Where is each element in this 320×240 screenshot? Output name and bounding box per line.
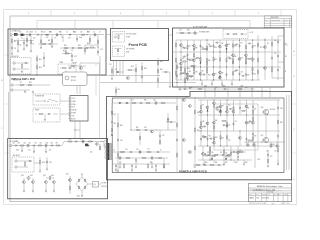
- svg-text:C82: C82: [221, 43, 224, 45]
- svg-text:R14: R14: [215, 120, 218, 122]
- svg-text:C28: C28: [228, 140, 231, 142]
- svg-text:D33: D33: [221, 72, 224, 74]
- svg-text:R62: R62: [225, 162, 228, 164]
- svg-text:R90: R90: [197, 112, 200, 114]
- svg-text:R61: R61: [201, 71, 204, 73]
- svg-text:100p: 100p: [79, 37, 82, 39]
- svg-text:C90: C90: [18, 142, 21, 144]
- svg-text:C12: C12: [74, 56, 77, 58]
- svg-text:R50: R50: [208, 135, 211, 137]
- svg-text:DWG NO: SV700-01: DWG NO: SV700-01: [249, 203, 262, 205]
- svg-text:C26: C26: [26, 31, 29, 33]
- svg-text:J12: J12: [109, 64, 112, 66]
- svg-text:C67: C67: [162, 135, 165, 137]
- svg-text:C92: C92: [40, 142, 43, 144]
- svg-text:R110: R110: [42, 162, 45, 164]
- svg-text:R61: R61: [160, 69, 163, 71]
- svg-text:D96: D96: [234, 56, 237, 58]
- svg-text:D12: D12: [131, 100, 134, 102]
- svg-text:Q70: Q70: [240, 58, 243, 60]
- svg-text:FUSE: FUSE: [35, 110, 39, 112]
- svg-text:Q30: Q30: [261, 107, 264, 109]
- svg-text:E: E: [285, 71, 286, 73]
- svg-text:C60: C60: [153, 100, 156, 102]
- svg-text:4 SCL: 4 SCL: [71, 107, 75, 109]
- svg-text:-B: -B: [160, 150, 161, 152]
- svg-text:6 STBY: 6 STBY: [71, 113, 76, 115]
- svg-text:R82: R82: [120, 125, 123, 127]
- svg-text:C6: C6: [66, 31, 68, 33]
- svg-text:D11: D11: [254, 109, 257, 111]
- svg-text:250V: 250V: [16, 149, 19, 151]
- svg-text:C77: C77: [147, 149, 150, 151]
- svg-text:C5: C5: [35, 31, 37, 33]
- svg-text:R71: R71: [260, 47, 263, 49]
- svg-text:none: none: [272, 203, 275, 205]
- svg-text:R49: R49: [234, 46, 237, 48]
- svg-text:R9: R9: [48, 40, 50, 42]
- svg-text:R80: R80: [253, 46, 256, 48]
- svg-text:2SC5200: 2SC5200: [270, 109, 276, 111]
- svg-text:C27: C27: [87, 31, 90, 33]
- svg-text:SIZE: SIZE: [267, 194, 270, 196]
- svg-text:MUTE: MUTE: [73, 63, 77, 65]
- svg-text:R16: R16: [39, 67, 42, 69]
- svg-text:C9: C9: [99, 31, 101, 33]
- svg-text:4.7u: 4.7u: [61, 37, 64, 39]
- svg-text:TONE: TONE: [59, 62, 63, 64]
- svg-text:+35V: +35V: [240, 85, 243, 87]
- svg-text:DESCRIPTION: DESCRIPTION: [272, 20, 281, 22]
- svg-text:D89: D89: [195, 71, 198, 73]
- svg-text:C19: C19: [19, 31, 22, 33]
- svg-text:5 MUTE: 5 MUTE: [71, 110, 77, 112]
- svg-text:223: 223: [33, 38, 35, 40]
- svg-text:6: 6: [28, 13, 29, 15]
- svg-text:2.2K: 2.2K: [68, 38, 71, 40]
- svg-text:C9: C9: [71, 50, 73, 52]
- svg-text:REVISIONS: REVISIONS: [271, 17, 279, 19]
- svg-text:R2: R2: [14, 41, 16, 43]
- svg-text:C95: C95: [80, 138, 83, 140]
- svg-text:C96: C96: [24, 142, 27, 144]
- svg-text:C8: C8: [40, 40, 42, 42]
- svg-text:R60: R60: [160, 61, 163, 63]
- svg-text:Q41: Q41: [30, 175, 33, 177]
- svg-text:C3: C3: [14, 48, 16, 50]
- svg-text:Q20: Q20: [185, 97, 188, 99]
- svg-text:R5: R5: [20, 45, 22, 47]
- svg-text:CN: CN: [94, 184, 96, 186]
- svg-text:PHONO IN: PHONO IN: [11, 56, 18, 58]
- svg-text:R72: R72: [254, 136, 257, 138]
- svg-text:R24: R24: [87, 43, 90, 45]
- svg-text:R99: R99: [280, 122, 283, 124]
- svg-text:C64: C64: [114, 123, 117, 125]
- svg-text:C19: C19: [49, 31, 52, 33]
- svg-text:R19: R19: [78, 45, 81, 47]
- svg-text:Q28: Q28: [247, 74, 250, 76]
- svg-text:+35V: +35V: [257, 159, 260, 161]
- svg-text:R85: R85: [136, 127, 139, 129]
- svg-text:C0: C0: [60, 31, 62, 33]
- svg-text:R70: R70: [29, 82, 32, 84]
- svg-text:Q3: Q3: [247, 108, 249, 110]
- svg-text:C41: C41: [274, 53, 277, 55]
- svg-text:R53: R53: [214, 59, 217, 61]
- svg-text:SHEET 1 OF 1: SHEET 1 OF 1: [281, 203, 290, 205]
- svg-text:C83: C83: [274, 151, 277, 153]
- svg-text:C13: C13: [43, 31, 46, 33]
- svg-text:Q89: Q89: [188, 71, 191, 73]
- svg-text:RY-12V: RY-12V: [71, 80, 76, 82]
- svg-text:R80: R80: [144, 100, 147, 102]
- svg-text:R18: R18: [64, 45, 67, 47]
- svg-text:R80: R80: [208, 60, 211, 62]
- svg-text:C80: C80: [211, 152, 214, 154]
- svg-text:C60: C60: [253, 73, 256, 75]
- svg-text:R77: R77: [270, 156, 273, 158]
- svg-text:C40: C40: [274, 40, 277, 42]
- svg-text:R13: R13: [30, 32, 33, 34]
- svg-text:10K: 10K: [46, 37, 48, 39]
- svg-text:R64: R64: [245, 162, 248, 164]
- svg-text:R60: R60: [205, 162, 208, 164]
- svg-text:C30: C30: [188, 46, 191, 48]
- svg-text:D8: D8: [115, 69, 117, 71]
- svg-text:Q43: Q43: [51, 175, 54, 177]
- svg-text:C98: C98: [46, 142, 49, 144]
- svg-text:5: 5: [74, 13, 75, 15]
- svg-text:3: 3: [166, 13, 167, 15]
- svg-text:D47: D47: [221, 106, 224, 108]
- svg-text:Q20: Q20: [221, 137, 224, 139]
- svg-text:LED POWER: LED POWER: [126, 49, 134, 51]
- svg-text:LTR: LTR: [265, 20, 267, 22]
- svg-text:R64: R64: [187, 68, 190, 70]
- svg-text:R15: R15: [39, 59, 42, 61]
- svg-text:D21: D21: [220, 152, 223, 154]
- svg-text:C75: C75: [125, 149, 128, 151]
- svg-text:Q50: Q50: [90, 152, 93, 154]
- svg-text:1: 1: [258, 13, 259, 15]
- svg-text:Q40: Q40: [21, 175, 24, 177]
- svg-text:R101: R101: [68, 138, 72, 140]
- svg-text:1K: 1K: [21, 38, 23, 40]
- svg-text:C55: C55: [190, 87, 193, 89]
- svg-text:R77: R77: [240, 43, 243, 45]
- svg-text:SHEET: SHEET: [284, 194, 288, 196]
- svg-text:C3: C3: [93, 31, 95, 33]
- svg-text:POWER & AMP-R PCB: POWER & AMP-R PCB: [179, 169, 207, 173]
- svg-text:R63: R63: [235, 162, 238, 164]
- svg-text:Q44: Q44: [66, 174, 69, 176]
- svg-text:R7: R7: [33, 44, 35, 46]
- svg-text:D9: D9: [202, 104, 204, 106]
- svg-text:D22: D22: [228, 104, 231, 106]
- svg-text:Front PCB: Front PCB: [129, 43, 148, 47]
- svg-text:Q31: Q31: [261, 135, 264, 137]
- svg-text:C20: C20: [80, 31, 83, 33]
- svg-text:C76: C76: [136, 149, 139, 151]
- svg-text:D94: D94: [201, 47, 204, 49]
- svg-text:C31: C31: [179, 30, 182, 32]
- svg-text:C75: C75: [119, 162, 122, 164]
- svg-text:R15: R15: [208, 74, 211, 76]
- svg-text:SIMBON Technologies Corp.: SIMBON Technologies Corp.: [257, 185, 284, 188]
- svg-text:BLUE: BLUE: [126, 51, 130, 53]
- svg-text:D7: D7: [253, 59, 255, 61]
- svg-text:T1: T1: [104, 141, 106, 143]
- svg-text:PW-R: PW-R: [222, 85, 225, 87]
- svg-text:Q61: Q61: [228, 124, 231, 126]
- svg-text:C62: C62: [120, 140, 123, 142]
- svg-text:C82: C82: [266, 151, 269, 153]
- svg-text:R53: R53: [227, 44, 230, 46]
- svg-text:C6: C6: [26, 45, 28, 47]
- svg-text:R90: R90: [247, 123, 250, 125]
- svg-text:R52: R52: [131, 66, 134, 68]
- svg-text:R71: R71: [214, 74, 217, 76]
- svg-text:SV-700: SV-700: [262, 198, 267, 200]
- svg-text:BD1: BD1: [77, 196, 80, 198]
- svg-text:R44: R44: [187, 30, 190, 32]
- svg-text:47u: 47u: [54, 38, 56, 40]
- svg-text:D1: D1: [285, 56, 287, 58]
- svg-text:2: 2: [212, 13, 213, 15]
- svg-text:C76: C76: [135, 162, 138, 164]
- svg-text:R75: R75: [118, 89, 121, 91]
- svg-text:C93: C93: [51, 142, 54, 144]
- svg-text:TO SPK: TO SPK: [101, 183, 106, 185]
- svg-text:C99: C99: [49, 162, 52, 164]
- svg-text:D39: D39: [182, 58, 185, 60]
- svg-text:C89: C89: [202, 121, 205, 123]
- svg-text:C13: C13: [73, 31, 76, 33]
- svg-text:+B: +B: [113, 150, 115, 152]
- svg-text:Q9: Q9: [267, 43, 269, 45]
- svg-text:VOL VR 10KBx2: VOL VR 10KBx2: [126, 34, 137, 36]
- svg-text:GND: GND: [204, 85, 207, 87]
- svg-text:C98: C98: [56, 142, 59, 144]
- svg-text:C67: C67: [234, 121, 237, 123]
- svg-text:C80: C80: [280, 108, 283, 110]
- svg-text:D14: D14: [114, 114, 117, 116]
- svg-text:C52: C52: [179, 74, 182, 76]
- svg-text:R55: R55: [144, 68, 147, 70]
- svg-text:R89: R89: [150, 162, 153, 164]
- svg-text:4: 4: [120, 13, 121, 15]
- svg-text:R39: R39: [195, 47, 198, 49]
- svg-text:C19: C19: [240, 71, 243, 73]
- svg-text:R61: R61: [215, 162, 218, 164]
- svg-text:R36: R36: [214, 47, 217, 49]
- svg-text:C67: C67: [225, 152, 228, 154]
- svg-text:POWER SW: POWER SW: [35, 96, 45, 98]
- svg-text:Q42: Q42: [43, 175, 46, 177]
- svg-text:OUT R/L: OUT R/L: [101, 186, 107, 188]
- svg-text:C95: C95: [13, 142, 16, 144]
- svg-text:REV: REV: [279, 194, 282, 196]
- svg-text:D20: D20: [207, 152, 210, 154]
- svg-text:R93: R93: [215, 137, 218, 139]
- svg-text:F1: F1: [20, 82, 22, 84]
- svg-text:CHK: CHK: [256, 194, 259, 196]
- svg-text:C91: C91: [29, 142, 32, 144]
- svg-text:C97: C97: [35, 142, 38, 144]
- svg-text:0.1u: 0.1u: [28, 149, 31, 151]
- svg-text:C56: C56: [245, 87, 248, 89]
- svg-text:MODEL: MODEL: [262, 194, 267, 196]
- svg-text:C66: C66: [144, 127, 147, 129]
- svg-text:C15: C15: [100, 49, 103, 51]
